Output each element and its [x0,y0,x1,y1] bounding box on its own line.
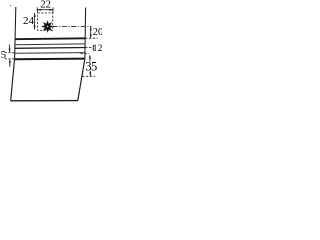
dim 5 lower arrow [9,59,11,66]
star wheel center hole [47,26,49,28]
dim 22 extension tick right [52,7,54,13]
dim 22 arrowhead right [49,9,53,11]
dim 12 small arrows [93,44,94,47]
svg-text:35: 35 [85,60,97,74]
dim 5 upper arrow [9,45,11,52]
dashed extension line at 76 right [82,75,95,77]
lower body trapezoid left edge [11,59,15,101]
dim 20 arrowhead bottom [90,34,92,38]
dim 24 arrowhead bottom [34,26,36,30]
left vertical edge of upper body [15,7,16,59]
dashed extension line at top of body right [85,37,98,39]
dashed extension line at 53.5 right [80,53,88,55]
dim 24 arrowhead top [34,13,36,17]
svg-text:24: 24 [23,15,35,27]
dashed box hidden outline of nut [38,13,53,30]
lower body trapezoid bottom edge [10,100,78,102]
svg-text:22: 22 [40,0,51,10]
dim 20 arrow line right [90,27,92,39]
svg-text:5: 5 [1,50,6,61]
dim 35 lower arrow [89,71,91,76]
svg-text:20: 20 [93,27,102,38]
dim 5 dashed line upper [5,52,15,54]
dim 20 arrowhead top [90,27,92,31]
speck noise dot [10,5,11,6]
dim 35 upper arrow [89,56,91,62]
lower body trapezoid right edge [78,59,85,101]
dim 22 arrow line [37,9,54,11]
body line 3 medium [15,47,85,50]
body line 4 thin [15,52,85,55]
svg-text:12: 12 [93,44,102,54]
dim 24 arrow line [34,13,36,30]
star wheel [43,22,53,32]
body line 5 thick top of lower body [15,58,85,61]
right vertical edge of upper body [84,8,87,59]
dim 22 arrowhead left [37,9,41,11]
dashed extension line 12 right [85,47,92,49]
body line 1 thick [15,37,85,40]
dim 5 dashed line lower [5,58,15,60]
dim 22 extension tick left [36,7,38,13]
body line 2 thin [15,43,85,46]
centerline from star to right [53,25,92,27]
